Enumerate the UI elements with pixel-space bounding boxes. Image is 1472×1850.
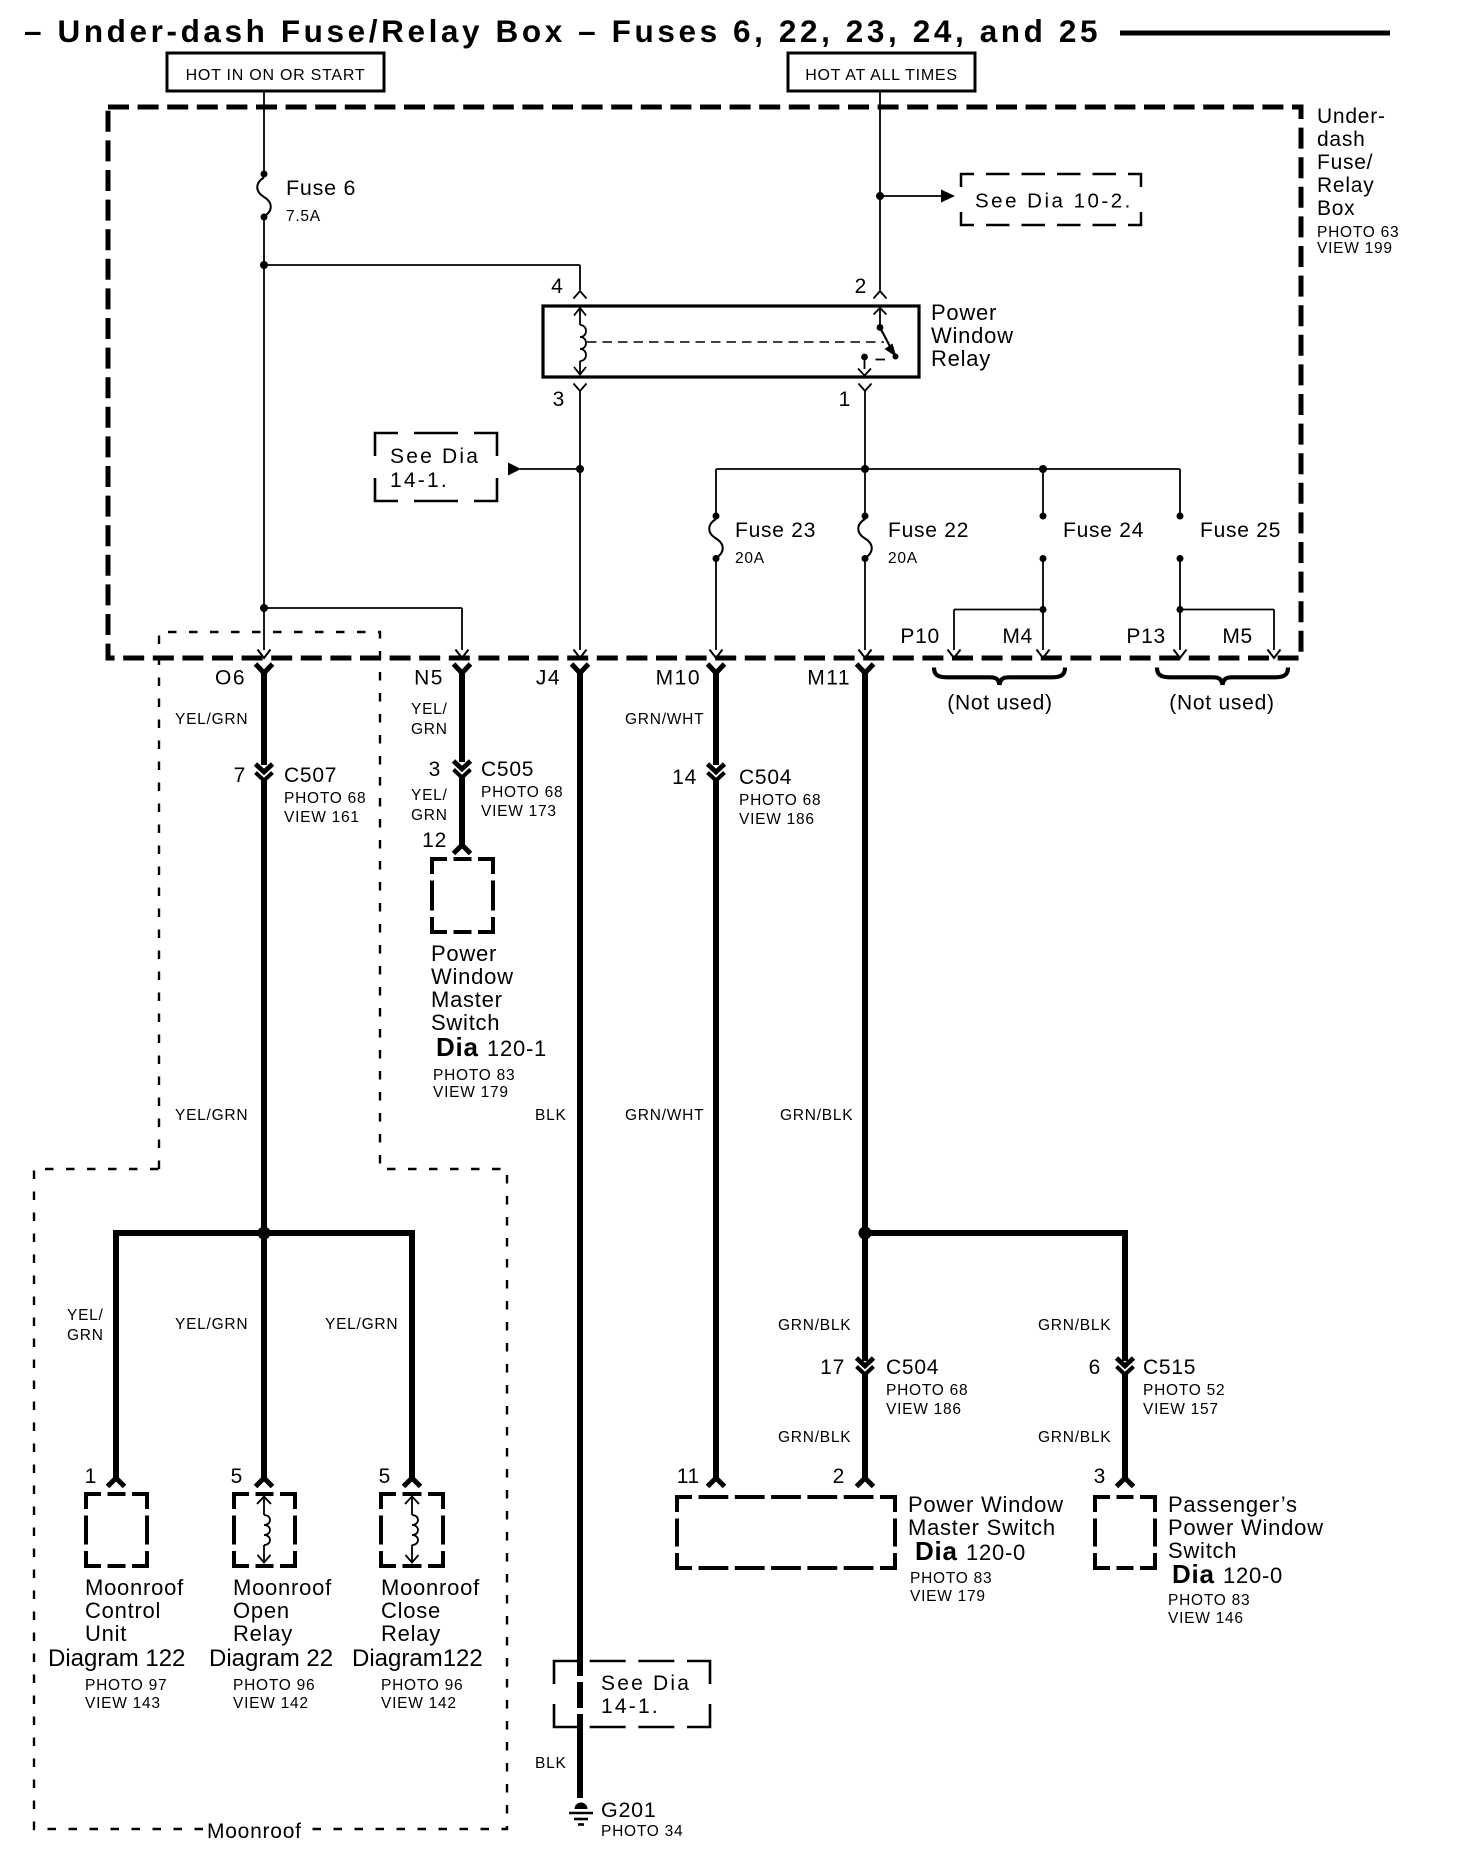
terminal J4 chevron xyxy=(572,664,589,673)
fuse F6 element xyxy=(257,178,271,217)
terminal O6 chevron xyxy=(256,664,273,673)
svg-text:YEL/GRN: YEL/GRN xyxy=(175,711,248,728)
svg-text:C507: C507 xyxy=(284,764,337,787)
svg-text:VIEW 186: VIEW 186 xyxy=(739,811,815,828)
svg-text:Dia: Dia xyxy=(915,1536,958,1566)
svg-text:Control: Control xyxy=(85,1598,161,1623)
svg-text:P10: P10 xyxy=(900,625,940,648)
svg-text:7.5A: 7.5A xyxy=(286,208,321,225)
wire from HOT AT ALL TIMES down to relay pin 2 xyxy=(879,91,881,290)
wire C515 to passenger switch xyxy=(1122,1373,1128,1479)
label box HOT AT ALL TIMES xyxy=(788,53,975,91)
wire bus to fuse 22 xyxy=(864,469,866,514)
svg-text:GRN/BLK: GRN/BLK xyxy=(778,1317,851,1334)
node bus/fuse24 xyxy=(1039,465,1047,473)
relay switch blade xyxy=(880,328,894,355)
svg-text:C515: C515 xyxy=(1143,1356,1196,1379)
fuse F23 bottom dot xyxy=(713,555,720,562)
svg-text:Moonroof: Moonroof xyxy=(85,1575,184,1600)
wire N5 upper xyxy=(459,670,465,762)
wire J4 ground run (upper) xyxy=(577,670,583,1676)
svg-text:– Under-dash Fuse/Relay Box –: – Under-dash Fuse/Relay Box – Fuses 6, 2… xyxy=(24,13,1101,49)
svg-text:120-1: 120-1 xyxy=(487,1036,547,1061)
relay switch blade end dot xyxy=(893,354,899,360)
svg-text:M4: M4 xyxy=(1002,625,1033,648)
terminal M10 arrowhead xyxy=(710,650,723,659)
svg-text:VIEW 199: VIEW 199 xyxy=(1317,240,1393,257)
pin 2 connector caret xyxy=(874,291,887,299)
svg-text:VIEW 173: VIEW 173 xyxy=(481,803,557,820)
svg-text:GRN/BLK: GRN/BLK xyxy=(1038,1429,1111,1446)
svg-text:C504: C504 xyxy=(886,1356,939,1379)
svg-text:dash: dash xyxy=(1317,128,1366,151)
svg-text:Box: Box xyxy=(1317,197,1355,220)
master switch pin 11 entry chevron xyxy=(708,1478,725,1487)
svg-text:2: 2 xyxy=(833,1465,845,1488)
fuse F6 bottom dot xyxy=(261,214,268,221)
svg-text:G201: G201 xyxy=(601,1798,657,1822)
svg-text:14: 14 xyxy=(672,766,697,789)
svg-text:Diagram 22: Diagram 22 xyxy=(209,1645,333,1672)
svg-text:VIEW 186: VIEW 186 xyxy=(886,1401,962,1418)
relay internal dashed link xyxy=(587,341,884,343)
relay coil upper arrow xyxy=(574,308,586,316)
svg-text:Dia: Dia xyxy=(436,1032,479,1062)
svg-text:M5: M5 xyxy=(1222,625,1253,648)
svg-text:Fuse 23: Fuse 23 xyxy=(735,519,816,542)
terminal N5 arrowhead xyxy=(456,650,469,659)
svg-text:YEL/: YEL/ xyxy=(411,701,448,718)
wire fuse24 to M4 xyxy=(1042,610,1044,651)
wire pin1 down xyxy=(864,391,866,469)
svg-text:PHOTO 63: PHOTO 63 xyxy=(1317,224,1399,241)
svg-text:PHOTO 83: PHOTO 83 xyxy=(1168,1592,1250,1609)
terminal P10 arrowhead xyxy=(948,650,961,659)
svg-text:VIEW 142: VIEW 142 xyxy=(233,1695,309,1712)
fuse F24 top dot xyxy=(1040,513,1047,520)
svg-text:HOT IN ON OR START: HOT IN ON OR START xyxy=(186,67,366,84)
terminal M4 arrowhead xyxy=(1037,650,1050,659)
svg-text:12: 12 xyxy=(422,829,447,852)
svg-text:Master: Master xyxy=(431,987,503,1012)
wire pin4 drop xyxy=(579,265,581,290)
svg-text:PHOTO 52: PHOTO 52 xyxy=(1143,1382,1225,1399)
moonroof close relay coil arrow up xyxy=(405,1497,419,1505)
moonroof close relay coil arrow down xyxy=(411,1545,413,1563)
fuse F23 top dot xyxy=(713,513,720,520)
svg-text:VIEW 146: VIEW 146 xyxy=(1168,1610,1244,1627)
svg-text:Relay: Relay xyxy=(233,1621,293,1646)
svg-text:20A: 20A xyxy=(735,550,765,567)
terminal J4 arrowhead xyxy=(574,650,587,659)
wire fuse25 down xyxy=(1179,560,1181,607)
svg-text:GRN: GRN xyxy=(411,807,448,824)
node M11 branch xyxy=(859,1227,872,1240)
relay contact dash xyxy=(876,359,886,361)
power window master switch box (dia 120-0) xyxy=(677,1497,692,1512)
svg-text:YEL/GRN: YEL/GRN xyxy=(175,1107,248,1124)
svg-text:Close: Close xyxy=(381,1598,441,1623)
svg-text:Power: Power xyxy=(431,941,497,966)
svg-text:6: 6 xyxy=(1089,1356,1101,1379)
pin 3 chevron xyxy=(574,384,587,392)
fuse F6 top junction dot xyxy=(261,171,268,178)
svg-text:Moonroof: Moonroof xyxy=(207,1820,302,1843)
wire branch to relay pin 4 xyxy=(264,264,580,266)
moonroof control unit entry chevron xyxy=(108,1478,125,1487)
wire to moonroof control unit xyxy=(113,1230,119,1479)
svg-text:See Dia: See Dia xyxy=(601,1672,691,1695)
svg-text:Under-: Under- xyxy=(1317,105,1386,128)
connector C507 xyxy=(256,764,273,772)
wire fuse24 down xyxy=(1042,560,1044,607)
svg-text:14-1.: 14-1. xyxy=(601,1695,660,1718)
svg-text:20A: 20A xyxy=(888,550,918,567)
svg-text:C504: C504 xyxy=(739,766,792,789)
wire M11 upper xyxy=(862,670,868,1233)
svg-text:3: 3 xyxy=(429,758,441,781)
wire from HOT IN ON OR START to Fuse 6 xyxy=(263,91,265,172)
svg-text:GRN: GRN xyxy=(67,1327,104,1344)
wire M11 to master switch xyxy=(862,1373,868,1479)
svg-text:120-0: 120-0 xyxy=(966,1540,1026,1565)
not-used bracket P13/M5 xyxy=(1157,668,1288,685)
wire fuse25 to P13 xyxy=(1179,610,1181,651)
not-used bracket P10/M4 xyxy=(934,668,1065,685)
svg-text:PHOTO 97: PHOTO 97 xyxy=(85,1677,167,1694)
relay switch blade arrowhead xyxy=(885,344,897,358)
node moonroof distribution xyxy=(258,1227,271,1240)
svg-text:M11: M11 xyxy=(807,667,851,690)
node fuse6/relay-coil branch xyxy=(260,261,268,269)
svg-text:VIEW 142: VIEW 142 xyxy=(381,1695,457,1712)
node fuse25/M5 branch xyxy=(1177,606,1184,613)
svg-text:3: 3 xyxy=(553,388,565,411)
passenger switch pin 3 entry chevron xyxy=(1117,1478,1134,1487)
wire arrow to See Dia 10-2 xyxy=(880,195,942,197)
wire bus to fuse 24 xyxy=(1042,469,1044,514)
wire O6 lower xyxy=(261,779,267,1233)
reference box See Dia 14-1 xyxy=(375,433,398,456)
svg-text:BLK: BLK xyxy=(535,1107,567,1124)
svg-text:1: 1 xyxy=(839,388,851,411)
terminal M5 arrowhead xyxy=(1268,650,1281,659)
svg-text:PHOTO 68: PHOTO 68 xyxy=(481,784,563,801)
svg-text:J4: J4 xyxy=(536,667,561,690)
svg-text:1: 1 xyxy=(85,1465,97,1488)
moonroof close relay entry chevron xyxy=(404,1478,421,1487)
svg-text:YEL/GRN: YEL/GRN xyxy=(325,1316,398,1333)
svg-text:(Not used): (Not used) xyxy=(947,692,1053,715)
svg-text:C505: C505 xyxy=(481,758,534,781)
svg-text:PHOTO 83: PHOTO 83 xyxy=(433,1067,515,1084)
svg-text:HOT AT ALL TIMES: HOT AT ALL TIMES xyxy=(805,67,958,84)
label box HOT IN ON OR START xyxy=(167,53,384,91)
relay contact arrow to pin 1 xyxy=(864,357,866,369)
svg-text:Unit: Unit xyxy=(85,1621,127,1646)
svg-text:Diagram 122: Diagram 122 xyxy=(48,1645,185,1672)
moonroof harness dashed outline xyxy=(159,632,507,1829)
svg-text:3: 3 xyxy=(1094,1465,1106,1488)
node pin1/bus xyxy=(861,465,869,473)
relay K1 Power Window Relay body xyxy=(543,306,919,377)
svg-text:P13: P13 xyxy=(1126,625,1166,648)
svg-text:GRN/BLK: GRN/BLK xyxy=(780,1107,853,1124)
svg-text:GRN/BLK: GRN/BLK xyxy=(778,1429,851,1446)
svg-text:See Dia 10-2.: See Dia 10-2. xyxy=(975,190,1133,213)
terminal P13 arrowhead xyxy=(1174,650,1187,659)
wire M11 to C504 xyxy=(862,1233,868,1361)
wire moonroof distribution bus xyxy=(113,1230,415,1236)
ground G201 symbol xyxy=(575,1803,588,1809)
wire O6 upper xyxy=(261,670,267,765)
fuse F22 element xyxy=(858,519,872,558)
svg-text:YEL/: YEL/ xyxy=(67,1307,104,1324)
relay contact dot xyxy=(861,354,868,361)
node see-dia-10-2 branch xyxy=(876,192,884,200)
arrowhead from See Dia 14-1 xyxy=(508,463,521,476)
svg-text:7: 7 xyxy=(234,764,246,787)
svg-text:17: 17 xyxy=(820,1356,845,1379)
terminal M10 chevron xyxy=(708,664,725,673)
svg-text:YEL/: YEL/ xyxy=(411,787,448,804)
node fuse24/P10 branch xyxy=(1040,606,1047,613)
moonroof open relay box xyxy=(234,1494,249,1509)
svg-text:5: 5 xyxy=(231,1465,243,1488)
wire fuse22 to M11 xyxy=(864,560,866,650)
svg-text:BLK: BLK xyxy=(535,1755,567,1772)
svg-text:GRN/WHT: GRN/WHT xyxy=(625,711,704,728)
svg-text:4: 4 xyxy=(551,275,563,298)
connector C504 (pin 17) xyxy=(857,1358,874,1366)
svg-text:120-0: 120-0 xyxy=(1223,1563,1283,1588)
svg-text:PHOTO 68: PHOTO 68 xyxy=(284,790,366,807)
svg-text:PHOTO 96: PHOTO 96 xyxy=(381,1677,463,1694)
passenger power window switch box xyxy=(1095,1497,1110,1512)
power window master switch box (dia 120-1) xyxy=(432,859,447,874)
reference box See Dia 14-1 (lower) xyxy=(554,1661,577,1684)
svg-text:PHOTO 83: PHOTO 83 xyxy=(910,1570,992,1587)
svg-text:Fuse 22: Fuse 22 xyxy=(888,519,969,542)
svg-text:Moonroof: Moonroof xyxy=(233,1575,332,1600)
svg-text:VIEW 161: VIEW 161 xyxy=(284,809,360,826)
relay switch pivot dot xyxy=(877,324,884,331)
moonroof open relay coil arrow down xyxy=(263,1545,265,1563)
title rule xyxy=(1120,31,1390,36)
svg-text:M10: M10 xyxy=(656,667,701,690)
svg-text:VIEW 179: VIEW 179 xyxy=(910,1588,986,1605)
svg-text:GRN: GRN xyxy=(411,721,448,738)
power window master switch entry chevron xyxy=(454,845,471,854)
svg-text:14-1.: 14-1. xyxy=(390,469,449,492)
svg-text:Fuse 6: Fuse 6 xyxy=(286,176,356,200)
svg-text:PHOTO 96: PHOTO 96 xyxy=(233,1677,315,1694)
relay switch common arrow xyxy=(874,308,887,315)
svg-text:Passenger’s: Passenger’s xyxy=(1168,1492,1298,1517)
wire to moonroof open relay xyxy=(261,1233,267,1479)
relay coil lower arrow xyxy=(579,361,581,374)
svg-text:Diagram122: Diagram122 xyxy=(352,1645,483,1672)
fuse F25 top dot xyxy=(1177,513,1184,520)
under-dash fuse/relay box outline xyxy=(108,107,1301,658)
wire fuse bus xyxy=(716,468,1180,470)
svg-text:5: 5 xyxy=(379,1465,391,1488)
wire M10 upper xyxy=(713,670,719,765)
svg-text:Relay: Relay xyxy=(381,1621,441,1646)
wire fuse 6 down to O6 xyxy=(263,219,265,650)
svg-text:Fuse 25: Fuse 25 xyxy=(1200,519,1281,542)
terminal M11 arrowhead xyxy=(859,650,872,659)
svg-text:Window: Window xyxy=(931,323,1014,348)
svg-text:PHOTO 68: PHOTO 68 xyxy=(886,1382,968,1399)
svg-text:N5: N5 xyxy=(414,667,444,690)
fuse F22 bottom dot xyxy=(862,555,869,562)
terminal M11 chevron xyxy=(857,664,874,673)
fuse F24 bottom dot xyxy=(1040,555,1047,562)
svg-text:Open: Open xyxy=(233,1598,290,1623)
svg-text:See Dia: See Dia xyxy=(390,445,480,468)
wire to moonroof close relay xyxy=(409,1230,415,1479)
svg-text:2: 2 xyxy=(855,275,867,298)
svg-text:Power: Power xyxy=(931,300,997,325)
svg-text:Relay: Relay xyxy=(1317,174,1374,197)
wire pin3 to J4 xyxy=(579,391,581,650)
wire branch to N5 xyxy=(264,607,462,609)
svg-text:GRN/WHT: GRN/WHT xyxy=(625,1107,704,1124)
svg-text:VIEW 143: VIEW 143 xyxy=(85,1695,161,1712)
wire fuse24 branch to P10 xyxy=(954,609,1043,611)
svg-text:PHOTO 34: PHOTO 34 xyxy=(601,1823,683,1840)
svg-text:VIEW 179: VIEW 179 xyxy=(433,1084,509,1101)
svg-text:Moonroof: Moonroof xyxy=(381,1575,480,1600)
pin 1 chevron xyxy=(859,384,872,392)
wire branch down to C515 xyxy=(1122,1230,1128,1361)
fuse F22 top dot xyxy=(862,513,869,520)
wire M10 lower xyxy=(713,779,719,1479)
svg-text:PHOTO 68: PHOTO 68 xyxy=(739,792,821,809)
svg-text:Power Window: Power Window xyxy=(1168,1515,1324,1540)
svg-text:Fuse/: Fuse/ xyxy=(1317,151,1373,174)
wire J4 ground run (in see-dia box) xyxy=(577,1682,583,1708)
wire M11 branch bus xyxy=(865,1230,1128,1236)
connector C515 (pin 6) xyxy=(1117,1358,1134,1366)
connector C505 xyxy=(454,761,471,769)
fuse F23 element xyxy=(709,519,723,558)
moonroof open relay entry chevron xyxy=(256,1478,273,1487)
moonroof close relay coil xyxy=(412,1515,418,1545)
wire fuse23 to M10 xyxy=(715,560,717,650)
terminal O6 arrowhead xyxy=(258,650,271,659)
svg-text:Relay: Relay xyxy=(931,346,991,371)
master switch pin 2 entry chevron xyxy=(857,1478,874,1487)
moonroof close relay box xyxy=(381,1494,396,1509)
svg-text:GRN/BLK: GRN/BLK xyxy=(1038,1317,1111,1334)
svg-text:11: 11 xyxy=(677,1465,700,1488)
wire N5 lower xyxy=(459,776,465,846)
svg-text:(Not used): (Not used) xyxy=(1169,692,1275,715)
wire bus corner to fuse 25 xyxy=(1179,469,1181,514)
wire see-dia-14-1 to J4 node xyxy=(520,468,580,470)
svg-text:YEL/GRN: YEL/GRN xyxy=(175,1316,248,1333)
svg-text:Power Window: Power Window xyxy=(908,1492,1064,1517)
arrowhead to See Dia 10-2 xyxy=(941,190,955,203)
svg-text:Window: Window xyxy=(431,964,514,989)
wire bus corner to fuse 23 xyxy=(715,469,717,514)
svg-text:Fuse 24: Fuse 24 xyxy=(1063,519,1144,542)
moonroof control unit box xyxy=(86,1494,101,1509)
node J4/see-dia-14-1 xyxy=(576,465,584,473)
reference box See Dia 10-2 xyxy=(961,174,974,187)
wire fuse25 branch to M5 xyxy=(1180,609,1274,611)
connector C504 (pin 14) xyxy=(708,764,725,772)
terminal N5 chevron xyxy=(454,664,471,673)
wire J4 ground run (lower) xyxy=(577,1714,583,1798)
fuse F25 bottom dot xyxy=(1177,555,1184,562)
svg-text:VIEW 157: VIEW 157 xyxy=(1143,1401,1219,1418)
svg-text:O6: O6 xyxy=(215,667,246,690)
relay coil xyxy=(580,325,586,361)
pin 4 connector caret xyxy=(574,291,587,299)
svg-text:Dia: Dia xyxy=(1172,1559,1215,1589)
node O6/N5 branch xyxy=(260,604,268,612)
moonroof open relay coil arrow up xyxy=(257,1497,271,1505)
moonroof open relay coil xyxy=(264,1515,270,1545)
